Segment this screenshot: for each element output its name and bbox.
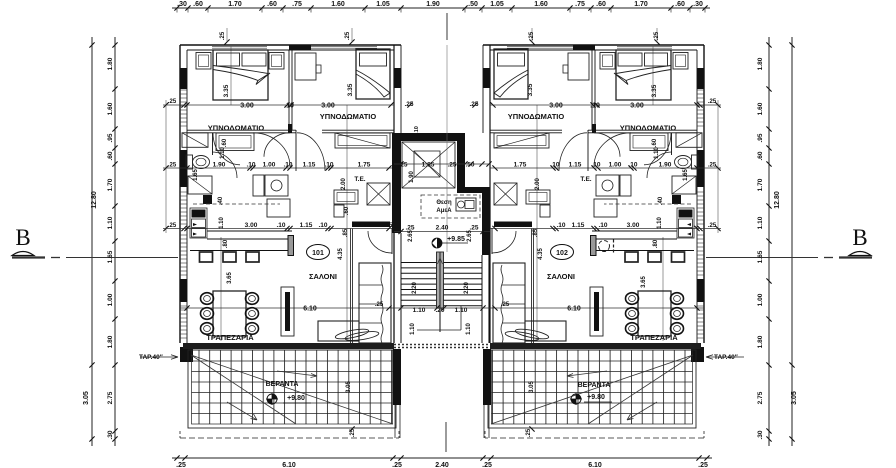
svg-text:3.05: 3.05 <box>529 381 535 393</box>
dining table <box>213 291 246 336</box>
svg-text:1.60: 1.60 <box>331 1 345 8</box>
dashed upper cabinet <box>193 203 280 205</box>
svg-text:1.05: 1.05 <box>376 1 390 8</box>
svg-text:.25: .25 <box>176 462 186 468</box>
svg-text:ΤΡΑΠΕΖΑΡΙΑ: ΤΡΑΠΕΖΑΡΙΑ <box>630 333 678 342</box>
svg-text:6.10: 6.10 <box>588 462 602 468</box>
right half mirrored geometry <box>483 28 872 446</box>
left exterior wall <box>179 45 181 343</box>
svg-text:1.60: 1.60 <box>534 1 548 8</box>
svg-text:1.00: 1.00 <box>757 293 764 306</box>
level marker +9.85 <box>432 238 442 248</box>
dim ticks in core rows <box>398 161 403 166</box>
construction line vertical 347 <box>346 105 348 341</box>
svg-text:1.10: 1.10 <box>220 147 226 159</box>
svg-text:+9.80: +9.80 <box>287 395 305 402</box>
window left wall 235 <box>180 234 187 236</box>
dim row y=228.5 <box>163 228 394 230</box>
dim row y=105 <box>163 104 394 106</box>
svg-text:3.65: 3.65 <box>227 272 233 284</box>
svg-text:.10: .10 <box>591 162 600 169</box>
svg-text:.25: .25 <box>708 163 717 169</box>
veranda border <box>188 350 396 428</box>
svg-text:3.35: 3.35 <box>223 84 230 97</box>
svg-text:.50: .50 <box>468 1 478 8</box>
svg-text:2.20: 2.20 <box>412 282 418 294</box>
svg-text:1.15: 1.15 <box>572 222 585 229</box>
sofa chaise part <box>318 321 359 341</box>
TE shower <box>367 183 390 205</box>
window left wall 306 <box>180 305 187 307</box>
sofa <box>359 263 391 343</box>
svg-text:2.75: 2.75 <box>757 391 764 404</box>
chairs <box>201 293 214 305</box>
level marker +9.80 right <box>571 394 581 404</box>
svg-text:1.80: 1.80 <box>107 57 114 70</box>
svg-text:.10: .10 <box>318 222 327 229</box>
svg-text:.75: .75 <box>575 1 585 8</box>
svg-text:1.90: 1.90 <box>409 171 415 183</box>
core walls above stairs <box>393 233 395 343</box>
axis line top <box>446 13 448 40</box>
svg-text:6.10: 6.10 <box>567 306 581 313</box>
level marker +9.80 left <box>267 394 277 404</box>
svg-text:3.00: 3.00 <box>630 103 644 110</box>
svg-text:.60: .60 <box>267 1 277 8</box>
svg-text:.30: .30 <box>107 430 114 439</box>
bed B2 single bed <box>356 49 390 99</box>
svg-text:.25: .25 <box>168 99 177 105</box>
svg-text:.60: .60 <box>757 151 764 160</box>
veranda diagonals <box>191 355 393 424</box>
svg-text:.10: .10 <box>550 162 559 169</box>
svg-text:.20: .20 <box>435 307 444 314</box>
svg-text:Θεση: Θεση <box>436 200 452 206</box>
stair railing lower <box>460 306 462 330</box>
partition between bedrooms <box>288 50 290 130</box>
svg-text:102: 102 <box>556 250 568 257</box>
unit number 102 <box>551 245 574 260</box>
svg-text:.60: .60 <box>107 151 114 160</box>
svg-text:1.90: 1.90 <box>426 1 440 8</box>
cabinet <box>267 199 290 217</box>
svg-text:.25: .25 <box>168 163 177 169</box>
svg-text:Τ.Ε.: Τ.Ε. <box>354 176 365 183</box>
svg-text:.10: .10 <box>414 126 420 134</box>
veranda grid <box>198 350 200 424</box>
svg-text:.25: .25 <box>375 302 384 308</box>
TV unit <box>281 287 294 336</box>
wheelchair symbol <box>456 198 476 211</box>
svg-text:.25: .25 <box>345 31 351 40</box>
svg-text:4.35: 4.35 <box>538 248 544 260</box>
bottom dimension chain <box>172 457 712 459</box>
kitchen bar counter <box>190 250 292 252</box>
living room top wall <box>207 230 292 232</box>
svg-text:1.10: 1.10 <box>657 217 663 229</box>
svg-text:4.35: 4.35 <box>338 248 344 260</box>
svg-text:.50: .50 <box>465 162 474 169</box>
disabled parking dashed box <box>421 195 480 218</box>
door arc bedroom2 <box>297 133 325 171</box>
svg-text:.25: .25 <box>708 99 717 105</box>
svg-text:1.75: 1.75 <box>514 162 527 169</box>
top exterior wall <box>180 44 401 46</box>
svg-text:.25: .25 <box>383 222 392 229</box>
svg-text:1.90: 1.90 <box>213 162 226 169</box>
svg-text:1.05: 1.05 <box>490 1 504 8</box>
svg-text:1.75: 1.75 <box>358 222 371 229</box>
svg-text:ΤΑΡ.40′′: ΤΑΡ.40′′ <box>714 354 738 361</box>
svg-text:.25: .25 <box>398 162 407 169</box>
svg-text:.10: .10 <box>284 103 294 110</box>
svg-text:1.10: 1.10 <box>107 216 114 229</box>
svg-text:1.65: 1.65 <box>107 250 114 263</box>
svg-text:3.65: 3.65 <box>641 276 647 288</box>
svg-text:ΣΑΛΟΝΙ: ΣΑΛΟΝΙ <box>547 272 575 281</box>
svg-text:ΥΠΝΟΔΩΜΑΤΙΟ: ΥΠΝΟΔΩΜΑΤΙΟ <box>208 124 265 133</box>
svg-text:.85: .85 <box>343 228 349 237</box>
svg-text:.95: .95 <box>107 133 114 142</box>
svg-text:1.65: 1.65 <box>683 169 689 181</box>
closet with diagonal <box>182 133 208 148</box>
bath wall <box>212 133 214 155</box>
dim row y=168 <box>163 167 394 169</box>
svg-text:Τ.Ε.: Τ.Ε. <box>580 176 591 183</box>
wardrobe bedroom1 <box>216 133 254 151</box>
svg-text:ΥΠΝΟΔΩΜΑΤΙΟ: ΥΠΝΟΔΩΜΑΤΙΟ <box>320 112 377 121</box>
nightstand right <box>269 53 284 70</box>
svg-text:2.65: 2.65 <box>408 230 414 242</box>
svg-text:3.00: 3.00 <box>240 103 254 110</box>
svg-text:.40: .40 <box>658 196 664 205</box>
svg-text:3.00: 3.00 <box>321 103 335 110</box>
svg-text:1.15: 1.15 <box>569 162 582 169</box>
entry hall wall <box>350 229 352 344</box>
nightstand left <box>196 53 211 70</box>
svg-text:.40: .40 <box>218 196 224 205</box>
svg-text:.10: .10 <box>324 162 333 169</box>
elevator shaft walls (poche) <box>392 133 490 193</box>
shower <box>188 176 212 194</box>
svg-text:ΤΑΡ.40′′: ΤΑΡ.40′′ <box>139 354 163 361</box>
svg-text:3.05: 3.05 <box>346 381 352 393</box>
svg-text:.30: .30 <box>693 1 703 8</box>
left outer dimension chain line <box>91 37 93 446</box>
svg-text:.30: .30 <box>757 430 764 439</box>
veranda band across core <box>394 344 490 346</box>
svg-text:1.75: 1.75 <box>514 222 527 229</box>
slope arrows <box>277 371 317 378</box>
window left wall 192 <box>180 191 187 193</box>
svg-text:.10: .10 <box>556 222 565 229</box>
washing machine <box>265 175 288 196</box>
svg-text:.25: .25 <box>168 223 177 229</box>
elevator car <box>402 142 455 188</box>
svg-text:.25: .25 <box>654 31 660 40</box>
svg-text:.10: .10 <box>598 222 607 229</box>
svg-text:.75: .75 <box>292 1 302 8</box>
axis line bottom <box>445 422 447 452</box>
bar stools <box>200 252 213 262</box>
svg-text:.10: .10 <box>246 162 255 169</box>
door arc bedroom1 <box>213 133 240 165</box>
svg-text:2.20: 2.20 <box>464 282 470 294</box>
svg-text:.85: .85 <box>533 228 539 237</box>
svg-text:1.10: 1.10 <box>410 323 416 335</box>
stair treads <box>401 262 482 264</box>
svg-text:.10: .10 <box>283 162 292 169</box>
wall thickness ticks <box>165 100 167 233</box>
svg-text:ΒΕΡΑΝΤΑ: ΒΕΡΑΝΤΑ <box>578 382 611 389</box>
core below veranda band <box>393 349 401 405</box>
svg-text:+9.80: +9.80 <box>587 394 605 401</box>
svg-text:12.80: 12.80 <box>91 191 98 209</box>
wall under bedrooms <box>187 129 296 131</box>
top wall windows <box>212 46 267 48</box>
svg-text:1.70: 1.70 <box>757 178 764 191</box>
lintel above entry <box>352 222 390 228</box>
section line B-B <box>12 256 45 258</box>
svg-text:.60: .60 <box>344 206 350 215</box>
svg-text:.25: .25 <box>529 31 535 40</box>
tick veranda dim <box>349 426 354 431</box>
svg-text:.25: .25 <box>392 462 402 468</box>
svg-text:2.75: 2.75 <box>107 391 114 404</box>
left inner dimension chain line <box>114 37 116 446</box>
svg-text:.25: .25 <box>447 162 456 169</box>
svg-text:.60: .60 <box>675 1 685 8</box>
svg-text:2.00: 2.00 <box>341 178 347 190</box>
svg-text:1.00: 1.00 <box>263 162 276 169</box>
svg-text:1.70: 1.70 <box>107 178 114 191</box>
svg-text:6.10: 6.10 <box>303 306 317 313</box>
svg-text:1.10: 1.10 <box>654 147 660 159</box>
window left wall 90 <box>180 89 187 91</box>
svg-text:1.70: 1.70 <box>228 1 242 8</box>
construction line vertical 231 <box>230 45 232 105</box>
svg-text:.25: .25 <box>526 428 532 437</box>
wardrobe bedroom2 <box>335 133 390 148</box>
svg-text:12.80: 12.80 <box>774 191 781 209</box>
svg-text:.25: .25 <box>698 462 708 468</box>
stair arrow <box>438 258 443 264</box>
svg-text:.25: .25 <box>220 31 226 40</box>
svg-text:1.60: 1.60 <box>107 102 114 115</box>
svg-text:.25: .25 <box>501 302 510 308</box>
svg-text:6.10: 6.10 <box>282 462 296 468</box>
svg-text:2.00: 2.00 <box>535 178 541 190</box>
svg-text:ΤΡΑΠΕΖΑΡΙΑ: ΤΡΑΠΕΖΑΡΙΑ <box>206 333 254 342</box>
svg-text:3.35: 3.35 <box>527 83 534 96</box>
svg-text:3.00: 3.00 <box>549 103 563 110</box>
svg-text:.60: .60 <box>193 1 203 8</box>
svg-text:.25: .25 <box>404 101 413 108</box>
svg-text:1.10: 1.10 <box>466 323 472 335</box>
svg-text:.10: .10 <box>276 222 285 229</box>
svg-text:ΥΠΝΟΔΩΜΑΤΙΟ: ΥΠΝΟΔΩΜΑΤΙΟ <box>620 124 677 133</box>
svg-text:1.10: 1.10 <box>455 307 468 314</box>
dim row y=308 <box>180 307 394 309</box>
svg-text:.60: .60 <box>652 138 658 147</box>
svg-text:.25: .25 <box>469 101 478 108</box>
right counter hob dashed circle <box>599 241 610 252</box>
svg-text:1.65: 1.65 <box>193 169 199 181</box>
top dimension chain <box>172 7 710 9</box>
svg-text:1.15: 1.15 <box>300 222 313 229</box>
svg-text:1.00: 1.00 <box>107 293 114 306</box>
svg-text:1.80: 1.80 <box>107 335 114 348</box>
construction line vertical 221 <box>220 237 222 341</box>
svg-text:ΥΠΝΟΔΩΜΑΤΙΟ: ΥΠΝΟΔΩΜΑΤΙΟ <box>508 112 565 121</box>
svg-text:1.80: 1.80 <box>757 57 764 70</box>
boiler boxes <box>334 190 358 204</box>
veranda bottom dashed <box>180 437 399 439</box>
TAP.40 leader arrow <box>140 355 178 359</box>
stair center rails <box>437 252 444 308</box>
svg-text:.60: .60 <box>596 1 606 8</box>
svg-text:.95: .95 <box>757 133 764 142</box>
svg-text:1.85: 1.85 <box>422 162 435 169</box>
svg-text:.10: .10 <box>590 103 600 110</box>
double door hall <box>253 133 290 167</box>
svg-text:1.60: 1.60 <box>757 102 764 115</box>
svg-text:2.65: 2.65 <box>467 230 473 242</box>
toilet <box>186 155 193 169</box>
svg-text:.25: .25 <box>350 428 356 437</box>
svg-text:1.90: 1.90 <box>659 162 672 169</box>
svg-text:1.75: 1.75 <box>358 162 371 169</box>
svg-text:B: B <box>15 225 30 250</box>
svg-text:ΣΑΛΟΝΙ: ΣΑΛΟΝΙ <box>309 272 337 281</box>
svg-text:B: B <box>852 225 867 250</box>
svg-text:1.65: 1.65 <box>757 250 764 263</box>
svg-text:3.35: 3.35 <box>651 84 658 97</box>
svg-text:.80: .80 <box>223 239 229 248</box>
svg-text:1.10: 1.10 <box>219 217 225 229</box>
svg-text:1.10: 1.10 <box>757 216 764 229</box>
svg-text:1.80: 1.80 <box>757 335 764 348</box>
svg-text:2.40: 2.40 <box>436 225 449 232</box>
kitchen unit <box>190 208 207 238</box>
svg-text:3.00: 3.00 <box>627 222 640 229</box>
axis line through core <box>446 45 448 252</box>
svg-text:1.00: 1.00 <box>609 162 622 169</box>
veranda slab band <box>183 343 394 349</box>
svg-text:.60: .60 <box>222 138 228 147</box>
svg-text:1.15: 1.15 <box>303 162 316 169</box>
svg-text:ΑμεΑ: ΑμεΑ <box>436 208 452 214</box>
bed B1 double bed <box>213 50 268 100</box>
svg-text:2.40: 2.40 <box>435 462 449 468</box>
svg-text:.80: .80 <box>653 239 659 248</box>
wall at core side <box>393 45 395 343</box>
entry door arc <box>368 231 392 253</box>
svg-text:3.35: 3.35 <box>347 83 354 96</box>
svg-text:1.10: 1.10 <box>413 307 426 314</box>
svg-text:101: 101 <box>312 250 324 257</box>
svg-text:.10: .10 <box>628 162 637 169</box>
svg-text:.30: .30 <box>177 1 187 8</box>
desk bedroom2 <box>295 53 316 80</box>
svg-text:+9.85: +9.85 <box>447 236 465 243</box>
svg-text:.25: .25 <box>708 223 717 229</box>
unit number 101 <box>307 245 330 260</box>
svg-text:ΒΕΡΑΝΤΑ: ΒΕΡΑΝΤΑ <box>266 381 299 388</box>
svg-text:.25: .25 <box>482 462 492 468</box>
svg-text:3.00: 3.00 <box>245 222 258 229</box>
svg-text:3.05: 3.05 <box>791 391 798 405</box>
svg-text:3.05: 3.05 <box>83 391 90 405</box>
svg-text:1.70: 1.70 <box>634 1 648 8</box>
throw blanket <box>335 327 370 341</box>
